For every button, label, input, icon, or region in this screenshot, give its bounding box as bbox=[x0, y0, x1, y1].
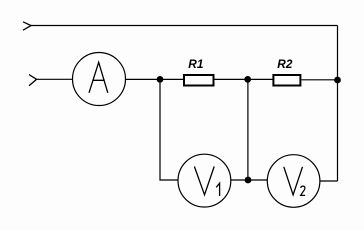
wire middle vertical bbox=[247, 79, 249, 180]
wire R1 to R2 bbox=[215, 78, 274, 80]
svg-text:R1: R1 bbox=[188, 57, 203, 71]
wire right vertical bbox=[337, 26, 339, 182]
terminal T2 (lower input arrow) bbox=[29, 75, 37, 86]
terminal T1 (top input arrow) bbox=[23, 22, 31, 30]
ammeter A bbox=[73, 53, 126, 106]
wire top rail bbox=[31, 25, 338, 27]
wire left vertical to V1 bbox=[160, 79, 178, 180]
wire ammeter to R1 bbox=[126, 78, 185, 80]
wire V1 to V2 bbox=[231, 179, 268, 181]
resistor R1 bbox=[184, 75, 214, 86]
voltmeter V1 bbox=[178, 154, 231, 207]
svg-text:R2: R2 bbox=[277, 57, 293, 71]
node junction middle top bbox=[244, 76, 251, 83]
node junction middle bottom bbox=[245, 177, 252, 184]
resistor R2 bbox=[273, 75, 300, 86]
wire V2 to right vertical bbox=[320, 180, 338, 182]
wire terminal T2 to ammeter bbox=[37, 78, 73, 80]
wire R2 to right node bbox=[302, 79, 338, 81]
node junction right bbox=[334, 77, 341, 84]
voltmeter V2 bbox=[267, 155, 320, 208]
node junction left bbox=[157, 76, 164, 83]
